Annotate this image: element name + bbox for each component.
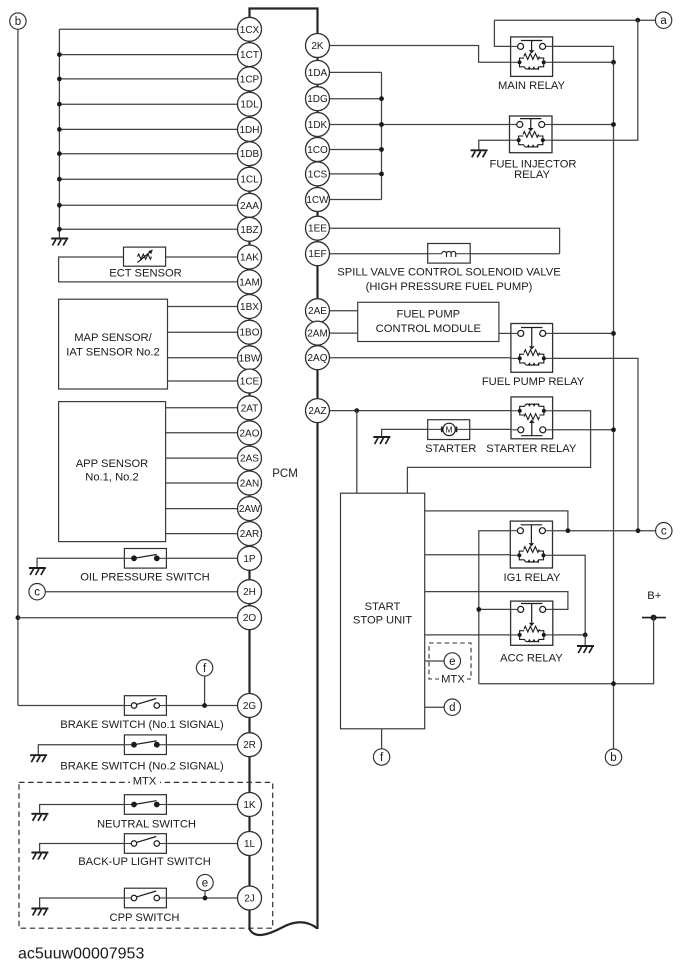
svg-text:1CO: 1CO <box>307 145 328 156</box>
svg-text:1CX: 1CX <box>240 25 260 36</box>
wire brake switch No.2 to ground <box>38 745 124 756</box>
junction starter contact b-line <box>611 427 616 432</box>
svg-text:OIL PRESSURE SWITCH: OIL PRESSURE SWITCH <box>80 572 210 584</box>
svg-text:1AK: 1AK <box>240 253 259 264</box>
junction SSU-c-line <box>566 528 571 533</box>
wire to pin 1BZ <box>59 228 237 230</box>
label RELAY <box>514 169 550 181</box>
wire 2AE to module <box>330 310 358 312</box>
label STARTER RELAY <box>486 443 577 455</box>
svg-text:1DK: 1DK <box>308 120 328 131</box>
pin 1P <box>238 546 262 570</box>
node c right <box>656 523 672 539</box>
wire APP to 2AO <box>166 432 238 434</box>
junction bus-1CP <box>57 77 62 82</box>
junction FI contact b-line <box>611 122 616 127</box>
label STOP UNIT <box>353 614 412 626</box>
junction e-2J wire <box>203 896 208 901</box>
label FUEL PUMP RELAY <box>482 376 585 388</box>
node b bottom <box>605 749 621 765</box>
wire starter relay coil right loop <box>407 411 590 493</box>
svg-text:2AO: 2AO <box>239 428 259 439</box>
pin 1CT <box>238 43 262 67</box>
wire 2AQ to FP coil <box>330 357 511 359</box>
svg-text:1EF: 1EF <box>308 249 326 260</box>
junction bus-1BZ <box>57 227 62 232</box>
relay IG1 RELAY K5 <box>510 521 552 568</box>
pin 2AT <box>238 396 262 420</box>
pin 2AN <box>238 471 262 495</box>
junction 2AZ-SSU <box>354 408 359 413</box>
junction FP contact b-line <box>611 331 616 336</box>
svg-text:STARTER RELAY: STARTER RELAY <box>486 443 577 455</box>
svg-text:1CE: 1CE <box>240 377 260 388</box>
pin 1CL <box>238 167 262 191</box>
svg-text:1K: 1K <box>243 800 256 811</box>
wire starter to starter relay <box>470 428 511 430</box>
pin 1DB <box>238 142 262 166</box>
wire 1DA stub <box>330 71 382 73</box>
label CPP SWITCH <box>109 912 179 924</box>
svg-text:BRAKE SWITCH (No.2 SIGNAL): BRAKE SWITCH (No.2 SIGNAL) <box>60 761 224 773</box>
wire SSU to ACC contact loop <box>425 592 568 610</box>
svg-text:2AR: 2AR <box>240 529 259 540</box>
pin 2AW <box>238 497 262 521</box>
label FUEL INJECTOR <box>489 158 576 170</box>
svg-text:1CT: 1CT <box>240 50 259 61</box>
wire IG1 coil right down <box>553 555 586 635</box>
label ACC RELAY <box>500 652 563 664</box>
svg-text:2G: 2G <box>243 701 257 712</box>
neutral switch S4 <box>124 795 166 815</box>
relay STARTER RELAY K4 <box>511 397 553 439</box>
junction B+ b-line <box>611 681 616 686</box>
wire SSU to e <box>425 660 445 662</box>
wire oil switch to 1P <box>166 557 237 559</box>
label BRAKE SWITCH (No.1 SIGNAL) <box>60 719 224 731</box>
wire ACC contact left <box>479 608 511 610</box>
svg-text:2O: 2O <box>243 613 257 624</box>
svg-text:SPILL VALVE CONTROL SOLENOID V: SPILL VALVE CONTROL SOLENOID VALVE <box>337 266 560 278</box>
PCM connector top edge <box>248 7 318 9</box>
pin 1CS <box>306 162 330 186</box>
wire left bus vertical <box>58 29 60 238</box>
APP sensor box <box>59 402 166 542</box>
label MTX top <box>130 775 160 788</box>
wire CPP switch to 2J <box>166 897 237 899</box>
svg-text:e: e <box>202 878 208 890</box>
label IAT SENSOR No.2 <box>66 347 159 359</box>
svg-text:2H: 2H <box>243 587 256 598</box>
junction bus-1DH <box>57 127 62 132</box>
wire main relay contact right <box>553 46 614 62</box>
svg-text:BACK-UP LIGHT SWITCH: BACK-UP LIGHT SWITCH <box>78 856 211 868</box>
wire 1DK to fuel injector relay <box>330 124 510 126</box>
MTX dashed enclosure <box>19 782 273 928</box>
pin 2H <box>238 580 262 604</box>
pin 1DA <box>306 60 330 84</box>
svg-text:1CP: 1CP <box>240 74 260 85</box>
pin 1DL <box>238 92 262 116</box>
svg-text:1CW: 1CW <box>306 195 329 206</box>
svg-text:2AZ: 2AZ <box>308 406 326 417</box>
label PCM <box>272 468 298 480</box>
svg-text:MTX: MTX <box>133 776 157 788</box>
ECT sensor thermistor R1 <box>124 247 166 266</box>
svg-text:2AT: 2AT <box>241 403 259 414</box>
pin 2AZ <box>306 399 330 423</box>
figure id ac5uuw00007953 <box>18 946 144 963</box>
pin 1BZ <box>238 217 262 241</box>
wire brake switch No.1 to 2G <box>166 705 237 707</box>
label START <box>365 601 401 613</box>
brake switch No.2 S3 <box>124 735 166 755</box>
wire 2AZ branch to start stop unit <box>356 411 358 494</box>
pin 1AM <box>238 270 262 294</box>
pin 1L <box>238 832 262 856</box>
wire SSU to f <box>381 729 383 749</box>
wire main relay coil right <box>553 61 614 63</box>
svg-text:FUEL PUMP: FUEL PUMP <box>396 309 460 321</box>
label OIL PRESSURE SWITCH <box>80 572 210 584</box>
label APP SENSOR <box>76 458 149 470</box>
label B+ <box>647 590 661 602</box>
wire 1CW stub <box>330 199 382 201</box>
ground CPP switch <box>31 909 48 916</box>
svg-text:1DB: 1DB <box>240 149 260 160</box>
pin 1CE <box>238 369 262 393</box>
svg-text:(HIGH PRESSURE FUEL PUMP): (HIGH PRESSURE FUEL PUMP) <box>366 281 533 293</box>
junction ACC contact vertical <box>476 607 481 612</box>
pin 1CP <box>238 67 262 91</box>
wire to pin 1DB <box>59 153 237 155</box>
wire 2AZ to starter relay coil <box>330 410 512 412</box>
svg-text:M: M <box>446 425 453 435</box>
wire to pin 1CX <box>59 28 237 30</box>
svg-text:c: c <box>34 587 40 599</box>
wire ECT loop to 1AM <box>59 257 238 282</box>
svg-text:e: e <box>449 656 455 668</box>
pin 1CX <box>238 17 262 41</box>
svg-text:1DH: 1DH <box>239 125 259 136</box>
junction FPcoil-c-line <box>636 528 641 533</box>
label ECT SENSOR <box>109 268 182 280</box>
svg-text:ACC RELAY: ACC RELAY <box>500 652 563 664</box>
wire brake switch No.2 to 2R <box>166 744 237 746</box>
wire MAP to 1BO <box>168 331 238 333</box>
B+ terminal <box>642 615 666 621</box>
svg-text:2AQ: 2AQ <box>307 353 327 364</box>
pin 1K <box>238 793 262 817</box>
ground left bus <box>51 239 68 246</box>
svg-text:c: c <box>661 526 667 538</box>
pin 2AE <box>306 299 330 323</box>
junction right bus <box>379 96 384 101</box>
wire a-line down to main relay <box>494 20 510 46</box>
wire MAP to 1CE <box>168 380 238 382</box>
svg-text:1BO: 1BO <box>239 328 259 339</box>
svg-text:ECT SENSOR: ECT SENSOR <box>109 268 182 280</box>
wire SSU to d <box>425 706 445 708</box>
label MAIN RELAY <box>498 80 565 92</box>
junction bus-1DL <box>57 102 62 107</box>
pin 1DK <box>306 113 330 137</box>
wire CPP switch to ground <box>40 898 125 909</box>
svg-text:1CS: 1CS <box>308 169 328 180</box>
wire SSU to IG1 contact <box>425 511 568 531</box>
wire to pin 1DL <box>59 103 237 105</box>
svg-text:d: d <box>449 702 455 714</box>
fuel pump control module box <box>358 302 499 341</box>
node a <box>655 12 671 28</box>
svg-text:NEUTRAL SWITCH: NEUTRAL SWITCH <box>97 819 196 831</box>
junction bus-2AA <box>57 203 62 208</box>
ground brake switch No.2 <box>30 755 47 762</box>
node e lower <box>197 874 213 890</box>
wire to pin 1DH <box>59 128 237 130</box>
svg-text:B+: B+ <box>647 590 661 602</box>
wire c to 2H <box>45 591 238 593</box>
ground back-up light switch <box>31 853 48 860</box>
pin 2AQ <box>306 346 330 370</box>
svg-text:PCM: PCM <box>272 468 298 480</box>
svg-text:1DG: 1DG <box>307 94 328 105</box>
wire SSU to ACC coil <box>425 634 511 636</box>
wire back-up switch to 1L <box>166 843 237 845</box>
wire right bus vertical <box>381 72 383 199</box>
svg-text:MAIN RELAY: MAIN RELAY <box>498 80 565 92</box>
svg-text:No.1, No.2: No.1, No.2 <box>85 471 138 483</box>
wire 1CS stub <box>330 173 382 175</box>
MAP/IAT sensor box <box>59 299 168 389</box>
junction right bus <box>379 122 384 127</box>
junction bus-1CT <box>57 52 62 57</box>
svg-text:2AS: 2AS <box>240 454 259 465</box>
svg-text:1BZ: 1BZ <box>240 225 258 236</box>
junction ACC-IG1 coil <box>583 633 588 638</box>
wire FP relay contact right <box>553 332 614 334</box>
pin 2AR <box>238 522 262 546</box>
svg-text:IAT SENSOR No.2: IAT SENSOR No.2 <box>66 347 159 359</box>
pin 2G <box>238 694 262 718</box>
wire ground to starter <box>382 429 428 437</box>
svg-text:1BW: 1BW <box>239 353 261 364</box>
ground fuel injector relay <box>471 150 488 157</box>
label (HIGH PRESSURE FUEL PUMP) <box>366 281 533 293</box>
pin 2AO <box>238 421 262 445</box>
label MAP SENSOR/ <box>74 332 152 344</box>
junction bus-1CL <box>57 177 62 182</box>
spill valve solenoid L1 <box>428 244 471 264</box>
label BRAKE SWITCH (No.2 SIGNAL) <box>60 761 224 773</box>
svg-text:CPP SWITCH: CPP SWITCH <box>109 912 179 924</box>
wire module to fuel pump relay <box>499 332 511 334</box>
wire starter relay contact right <box>553 429 614 431</box>
node c left <box>29 584 45 600</box>
label STARTER <box>425 443 476 455</box>
svg-text:CONTROL MODULE: CONTROL MODULE <box>376 323 481 335</box>
svg-text:2AW: 2AW <box>239 504 261 515</box>
svg-text:a: a <box>660 15 667 27</box>
svg-text:1CL: 1CL <box>240 175 259 186</box>
junction f-2G wire <box>202 703 207 708</box>
wire B+ down <box>479 618 654 684</box>
wire 1EE loop <box>330 228 560 254</box>
svg-text:2R: 2R <box>243 740 256 751</box>
svg-text:2AA: 2AA <box>240 201 259 212</box>
wire FI relay coil right up <box>552 20 638 140</box>
svg-text:1P: 1P <box>243 554 256 565</box>
label FUEL PUMP <box>396 309 460 321</box>
pin 2AM <box>306 321 330 345</box>
wire coil ground stem <box>584 635 586 646</box>
junction main coil b-line <box>611 60 616 65</box>
svg-text:1AM: 1AM <box>239 277 260 288</box>
pin 2K <box>306 34 330 58</box>
wire c-line <box>553 530 656 532</box>
pin 2R <box>238 733 262 757</box>
wire APP to 2AW <box>166 508 238 510</box>
svg-text:STOP UNIT: STOP UNIT <box>353 614 412 626</box>
MTX dashed box right <box>429 643 471 679</box>
node d <box>444 699 460 715</box>
wire MAP to 1BW <box>168 357 238 359</box>
svg-text:1EE: 1EE <box>308 224 327 235</box>
wire to pin 2AA <box>59 204 237 206</box>
svg-text:STARTER: STARTER <box>425 443 476 455</box>
svg-text:START: START <box>365 601 401 613</box>
wire IG1 contact left <box>479 531 511 684</box>
wire ACC coil right to ground <box>553 634 585 636</box>
junction right bus <box>379 172 384 177</box>
CPP switch S6 <box>124 888 166 908</box>
node b top-left <box>10 13 26 29</box>
svg-text:2AE: 2AE <box>308 306 327 317</box>
pin 1EE <box>306 216 330 240</box>
pin 1DG <box>306 87 330 111</box>
svg-text:1BX: 1BX <box>240 302 259 313</box>
back-up light switch S5 <box>124 834 166 854</box>
relay FUEL PUMP RELAY K3 <box>511 324 553 373</box>
wire APP to 2AS <box>166 457 238 459</box>
label BACK-UP LIGHT SWITCH <box>78 856 211 868</box>
wire to pin 1CP <box>59 78 237 80</box>
svg-text:BRAKE SWITCH (No.1 SIGNAL): BRAKE SWITCH (No.1 SIGNAL) <box>60 719 224 731</box>
label SPILL VALVE CONTROL SOLENOID VALVE <box>337 266 560 278</box>
wire 1DG stub <box>330 98 382 100</box>
PCM connector torn bottom edge <box>250 922 318 935</box>
ground oil pressure switch <box>29 568 46 575</box>
wire b-line to brake switch No.1 <box>18 705 125 707</box>
svg-text:2AM: 2AM <box>307 329 328 340</box>
pin 1CO <box>306 138 330 162</box>
relay MAIN RELAY K1 <box>511 37 553 77</box>
PCM connector right edge <box>316 9 318 930</box>
svg-text:FUEL PUMP RELAY: FUEL PUMP RELAY <box>482 376 585 388</box>
junction b-2O <box>16 615 21 620</box>
wire spill valve right <box>470 253 559 255</box>
wire f stem <box>204 676 206 706</box>
pin 1EF <box>306 242 330 266</box>
svg-text:2J: 2J <box>244 894 255 905</box>
svg-text:b: b <box>610 752 616 764</box>
pin 1AK <box>238 245 262 269</box>
svg-text:MTX: MTX <box>441 673 465 685</box>
svg-text:RELAY: RELAY <box>514 169 550 181</box>
relay ACC RELAY K6 <box>511 601 553 645</box>
pin 1DH <box>238 117 262 141</box>
node f upper <box>196 660 212 676</box>
wire back-up switch to ground <box>40 844 125 853</box>
wire FI relay coil left to ground <box>479 140 510 150</box>
node f bottom <box>373 749 389 765</box>
starter motor M1 <box>428 420 470 440</box>
pin 1CW <box>306 188 330 212</box>
pin 1BX <box>238 295 262 319</box>
svg-text:1DA: 1DA <box>308 68 328 79</box>
wire e stem <box>204 890 206 898</box>
wire MAP to 1BX <box>168 306 238 308</box>
oil pressure switch S1 <box>124 549 166 569</box>
label MTX right <box>439 673 467 685</box>
wire to pin 1CL <box>59 178 237 180</box>
wire b-line to 2O <box>18 617 238 619</box>
wire b vertical <box>17 29 19 706</box>
ground ACC relay <box>577 646 594 653</box>
start stop unit box <box>341 493 425 729</box>
label No.1, No.2 <box>85 471 138 483</box>
pin 2AA <box>238 193 262 217</box>
wire b-line vertical right <box>613 62 615 749</box>
pin 1BO <box>238 320 262 344</box>
pin 2O <box>238 606 262 630</box>
wire to pin 1CT <box>59 54 237 56</box>
svg-text:APP SENSOR: APP SENSOR <box>76 458 149 470</box>
svg-text:1DL: 1DL <box>240 100 259 111</box>
pin 2AS <box>238 446 262 470</box>
svg-text:MAP SENSOR/: MAP SENSOR/ <box>74 332 152 344</box>
junction a-line FI coil <box>635 18 640 23</box>
svg-text:1L: 1L <box>244 839 256 850</box>
pin 2J <box>238 886 262 910</box>
wire FP coil right down <box>553 358 638 530</box>
PCM connector left edge <box>248 9 250 931</box>
node e right <box>444 653 460 669</box>
wire 2K to main relay coil <box>330 46 511 63</box>
wire neutral switch to 1K <box>166 804 237 806</box>
wire 1CO stub <box>330 149 382 151</box>
ground starter <box>373 437 390 444</box>
junction bus-1DB <box>57 151 62 156</box>
wire oil switch to ground <box>37 558 124 568</box>
wire a-line <box>494 19 655 21</box>
ground neutral switch <box>31 814 48 821</box>
wire 1EF to spill valve <box>330 253 428 255</box>
pin 1BW <box>238 346 262 370</box>
wire FI relay contact right <box>552 124 614 126</box>
svg-text:2AN: 2AN <box>240 479 259 490</box>
label CONTROL MODULE <box>376 323 481 335</box>
relay FUEL INJECTOR RELAY K2 <box>510 116 553 153</box>
wire APP to 2AT <box>166 407 238 409</box>
wire neutral switch to ground <box>40 805 125 814</box>
wire APP to 2AR <box>166 533 238 535</box>
junction right bus <box>379 147 384 152</box>
wire APP to 2AN <box>166 482 238 484</box>
svg-text:ac5uuw00007953: ac5uuw00007953 <box>18 946 144 963</box>
svg-text:IG1 RELAY: IG1 RELAY <box>504 572 562 584</box>
label NEUTRAL SWITCH <box>97 819 196 831</box>
